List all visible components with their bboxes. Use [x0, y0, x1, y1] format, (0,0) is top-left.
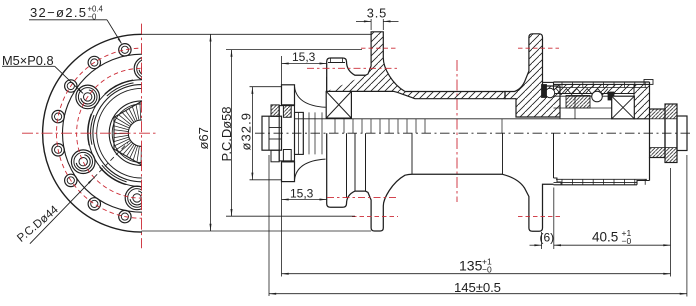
dimension O32.9	[250, 86, 283, 88]
svg-text:145±0.5: 145±0.5	[454, 280, 501, 295]
16 spoke holes O2.5 on PCD58	[52, 44, 131, 223]
dimension 40.5 +1/-0	[554, 244, 671, 246]
rotor counterbore seat	[328, 62, 345, 64]
svg-text:(6): (6)	[540, 231, 555, 245]
left cup fillet curves	[295, 87, 326, 108]
axle hole	[128, 120, 154, 146]
dimension 15.3 top	[281, 56, 283, 85]
dimension O67	[142, 33, 372, 35]
hatch: left shell cut (disc flange + spoke flange + barrel wall)	[327, 32, 505, 118]
svg-text:15,3: 15,3	[292, 50, 316, 64]
seal blocks	[542, 85, 547, 98]
red vertical centerline left view	[141, 24, 143, 249]
barrel face lines (bottom)	[411, 133, 413, 174]
serration radial lines	[114, 102, 144, 164]
axle washer stack	[295, 112, 304, 154]
spider waist double arcs	[88, 80, 196, 186]
freehub right face	[649, 82, 651, 108]
svg-text:3.5: 3.5	[367, 6, 387, 21]
red rotor PCD lines	[307, 67, 398, 69]
freehub seal collar steps	[554, 178, 562, 185]
dimension 3.5	[370, 19, 372, 30]
axle centerline (black)	[255, 132, 692, 134]
hatch: right shell cut (right spoke flange + bearing seat)	[505, 34, 560, 117]
red section-plane vertical line	[456, 60, 458, 202]
freehub end seal bump	[644, 80, 653, 85]
center boss circles	[109, 101, 174, 166]
bottom silhouette: disc flange plate	[327, 133, 366, 207]
dimension (6)	[541, 232, 543, 249]
left locknut lower half	[271, 150, 279, 162]
ratchet teeth	[556, 89, 608, 95]
left axle end cap	[262, 116, 282, 150]
disc flange rotor face outline	[327, 58, 366, 91]
flange inner circle	[63, 54, 221, 212]
svg-text:−0: −0	[622, 236, 632, 246]
shell boss circle O32.9	[93, 85, 190, 182]
barrel outer/inner wall lines	[436, 92, 498, 94]
hatch: pawl block	[566, 96, 590, 109]
freehub interior lines	[554, 95, 612, 97]
left locknut (sectioned)	[271, 105, 279, 117]
freehub bottom silhouette	[554, 184, 638, 186]
section view group	[142, 6, 693, 297]
svg-text:ø32.9: ø32.9	[239, 113, 254, 151]
right end nut C	[677, 116, 687, 151]
svg-text:135: 135	[459, 257, 483, 273]
bottom silhouette: disc flange step lines	[346, 133, 348, 198]
red spoke PCD lines	[361, 47, 397, 49]
svg-text:P.C.Dø58: P.C.Dø58	[219, 107, 234, 162]
right bearing (section box)	[612, 96, 635, 119]
red rotor PCD circle	[77, 68, 207, 198]
right locknut A	[650, 109, 666, 158]
axle surface line	[295, 118, 612, 120]
axle cap bore step	[269, 128, 282, 140]
bottom face lines	[0, 0, 1, 1]
left bearing (section box)	[326, 91, 351, 118]
freehub body OD lines	[554, 81, 650, 83]
left view: hub front half-view	[43, 34, 241, 232]
red spoke PCD circle	[57, 48, 227, 218]
svg-text:M5×P0.8: M5×P0.8	[2, 53, 54, 68]
spider waist circle	[88, 80, 195, 187]
6 rotor bolt bosses M5 on PCD44	[71, 57, 157, 210]
bearing balls	[545, 88, 554, 97]
bottom silhouette: left spoke flange	[366, 174, 503, 231]
left locknut body	[279, 106, 294, 161]
dimension P.C.DO58	[226, 49, 362, 51]
svg-text:−0: −0	[482, 265, 492, 275]
axle hex (across-flats 55)	[114, 101, 169, 164]
hatch: freehub right end block	[634, 84, 650, 118]
svg-text:ø67: ø67	[196, 127, 211, 149]
svg-text:40.5: 40.5	[592, 230, 618, 245]
dimension 15.3 bottom	[281, 182, 283, 277]
svg-text:15,3: 15,3	[290, 187, 314, 201]
red horizontal centerline left view	[22, 132, 158, 134]
right locknut B (hex)	[665, 104, 677, 163]
freehub spline ticks top	[562, 82, 645, 88]
label P.C.DO44 leader	[30, 178, 94, 244]
dimension 135 +1/-0	[282, 273, 671, 275]
axle thread/washer ticks	[299, 112, 503, 154]
left cone disc O32.9	[282, 85, 295, 105]
bottom silhouette: right spoke flange + fillet	[503, 174, 554, 231]
hatch: freehub wall band	[554, 84, 635, 93]
flange outer circle O67	[43, 34, 241, 232]
dimension 145 +-0.5	[268, 155, 270, 296]
